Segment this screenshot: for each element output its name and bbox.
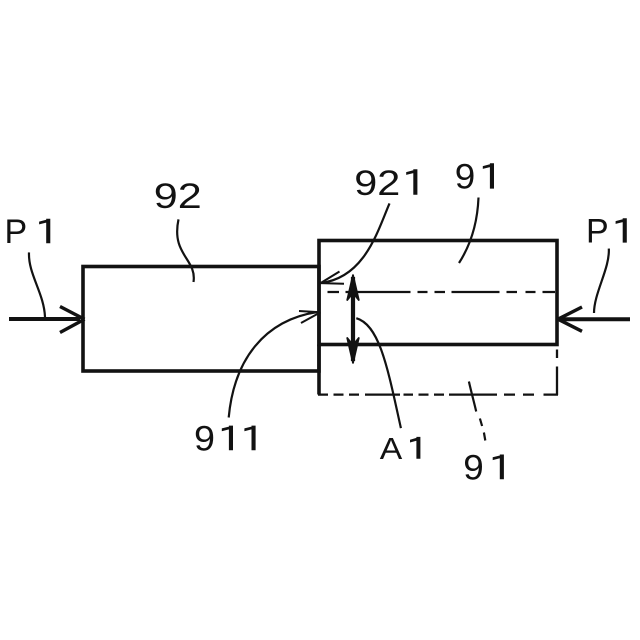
double-headed arrow A1 (shaft): [351, 277, 355, 361]
shared edge 911/921 (vertical line extension below block 91): [317, 345, 321, 395]
leader line for P1 left: [29, 252, 45, 317]
block 92 (left rectangle): [83, 267, 319, 372]
arrow P1 left (open head): [60, 307, 85, 333]
phantom outline of 91 (bottom dashed line): [318, 393, 558, 395]
leader line for 921 (curved, with open arrowhead): [321, 203, 390, 283]
leader line for 91 bottom (dashed part): [480, 419, 485, 441]
svg-text:92: 92: [354, 164, 400, 203]
double-headed arrow A1 (top head): [347, 275, 359, 301]
leader line for P1 right: [594, 249, 609, 313]
leader line for 911 (curved, with open arrowhead): [229, 312, 318, 418]
svg-text:P: P: [586, 213, 609, 251]
block 91 (right rectangle, solid outline): [319, 241, 557, 345]
leader line for 91 bottom (solid part): [469, 382, 476, 412]
leader line for A1: [356, 318, 401, 428]
arrow P1 right (shaft): [561, 317, 630, 321]
double-headed arrow A1 (bottom head): [347, 338, 359, 364]
phantom outline of 91 (right dashed edge): [556, 350, 558, 396]
arrow P1 right (open head): [558, 307, 582, 331]
arrow P1 left (shaft): [9, 317, 80, 321]
leader line for 91 top: [459, 198, 479, 264]
center phantom line through 91: [328, 291, 556, 293]
svg-text:9: 9: [194, 419, 215, 458]
arrowhead of 911 leader: [299, 311, 321, 323]
leader line for 92: [177, 219, 194, 282]
svg-text:P: P: [5, 213, 28, 251]
svg-text:92: 92: [154, 177, 202, 216]
svg-text:9: 9: [463, 448, 484, 487]
svg-text:A: A: [380, 431, 403, 466]
svg-text:9: 9: [455, 158, 476, 197]
arrowhead of 921 leader: [321, 272, 345, 284]
